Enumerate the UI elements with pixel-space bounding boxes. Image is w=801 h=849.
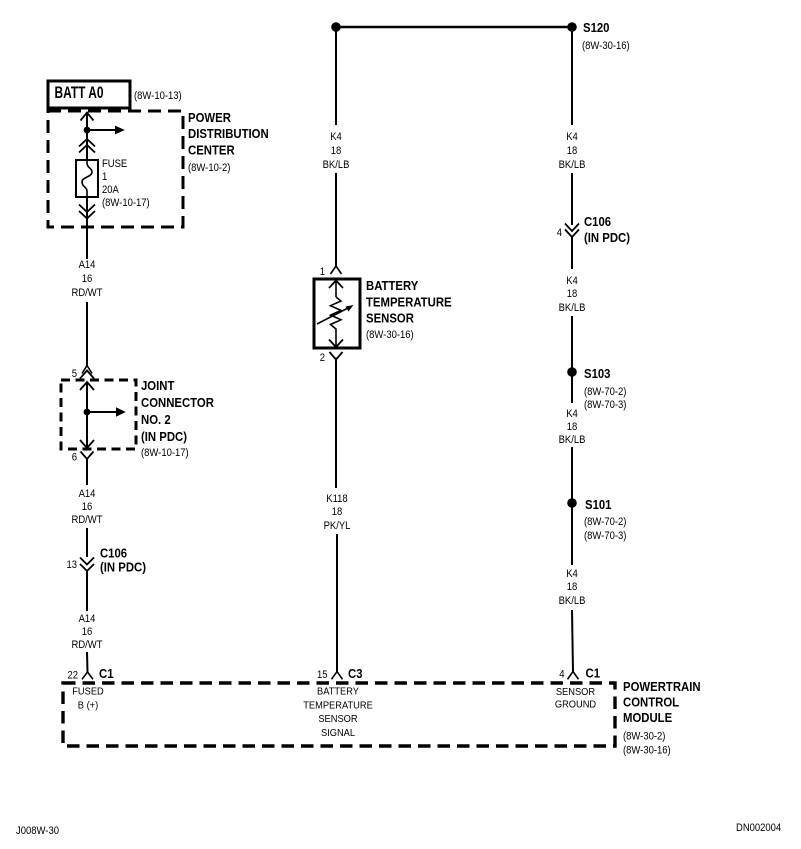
svg-text:GROUND: GROUND [555, 700, 596, 711]
wire down from C106 right [571, 237, 573, 269]
svg-text:CONTROL: CONTROL [623, 695, 679, 710]
connector C1 pin 22 fork [68, 666, 114, 682]
wire sensor feed top [335, 27, 337, 125]
svg-text:K118: K118 [326, 493, 347, 505]
svg-text:18: 18 [567, 421, 578, 433]
svg-text:RD/WT: RD/WT [72, 514, 103, 526]
svg-text:16: 16 [82, 273, 93, 285]
svg-text:18: 18 [567, 581, 578, 593]
svg-text:13: 13 [67, 559, 78, 571]
svg-text:BK/LB: BK/LB [323, 159, 350, 171]
svg-text:SENSOR: SENSOR [366, 311, 414, 326]
label BATTERY TEMPERATURE SENSOR SIGNAL [303, 687, 373, 740]
svg-text:RD/WT: RD/WT [72, 287, 103, 299]
label wire K4 18 BK/LB right fourth [559, 568, 586, 607]
svg-text:20A: 20A [102, 184, 119, 196]
svg-text:18: 18 [567, 145, 578, 157]
label wire K4 18 BK/LB middle [323, 131, 350, 171]
svg-text:SENSOR: SENSOR [318, 714, 357, 725]
svg-text:18: 18 [567, 288, 578, 300]
svg-text:DN002004: DN002004 [736, 822, 781, 834]
svg-text:15: 15 [317, 669, 328, 681]
svg-text:1: 1 [102, 171, 107, 183]
svg-text:C3: C3 [348, 666, 363, 681]
svg-text:BATTERY: BATTERY [366, 278, 418, 293]
label JOINT CONNECTOR NO. 2 (IN PDC) (8W-10-17) [141, 378, 214, 459]
svg-text:DISTRIBUTION: DISTRIBUTION [188, 126, 269, 141]
svg-text:SIGNAL: SIGNAL [321, 728, 356, 739]
svg-text:22: 22 [68, 670, 79, 682]
svg-text:K4: K4 [330, 131, 342, 143]
node S120 [567, 22, 577, 32]
wire down to C106 pin 4 [571, 173, 573, 225]
label J008W-30 [16, 825, 59, 837]
node splice in joint connector [84, 409, 91, 416]
svg-text:A14: A14 [79, 259, 96, 271]
connector pin 2 fork [320, 352, 343, 364]
svg-text:C106: C106 [100, 546, 127, 561]
label wire A14 16 RD/WT second [72, 488, 103, 526]
wire branch to other circuits from joint connector [87, 407, 126, 416]
label FUSE 1 20A (8W-10-17) [102, 158, 150, 209]
node splice above battery temperature sensor [331, 22, 341, 32]
svg-text:C1: C1 [99, 666, 114, 681]
wire down to joint connector [86, 302, 88, 366]
svg-text:MODULE: MODULE [623, 710, 672, 725]
svg-text:RD/WT: RD/WT [72, 639, 103, 651]
svg-text:(IN PDC): (IN PDC) [584, 230, 630, 245]
svg-text:B (+): B (+) [78, 701, 98, 712]
connector arrow to BATT A0 [81, 113, 94, 121]
label POWER DISTRIBUTION CENTER [188, 110, 269, 174]
svg-text:2: 2 [320, 352, 325, 364]
connector arrow joint connector output [80, 440, 94, 448]
wire down to S101 [571, 447, 573, 565]
svg-text:BK/LB: BK/LB [559, 595, 586, 607]
fuse F1 20A [76, 160, 98, 197]
svg-text:K4: K4 [566, 131, 578, 143]
svg-text:(IN PDC): (IN PDC) [100, 560, 146, 575]
power distribution center box [48, 111, 183, 227]
svg-text:FUSED: FUSED [72, 687, 104, 698]
wire fuse output down [86, 197, 88, 259]
svg-text:18: 18 [332, 506, 343, 518]
label FUSED B (+) [72, 687, 104, 712]
wire down to S103 [571, 316, 573, 403]
thermistor symbol [317, 281, 354, 348]
svg-text:4: 4 [559, 669, 564, 681]
wire down from pin 6 [86, 459, 88, 485]
svg-text:1: 1 [320, 266, 325, 278]
connector pin 6 chevron [72, 452, 94, 464]
svg-text:(8W-10-17): (8W-10-17) [102, 197, 150, 209]
svg-text:(8W-10-17): (8W-10-17) [141, 447, 189, 459]
svg-text:JOINT: JOINT [141, 378, 174, 393]
label S101 (8W-70-2) (8W-70-3) [584, 497, 627, 542]
svg-text:5: 5 [72, 368, 77, 380]
label POWERTRAIN CONTROL MODULE [623, 679, 701, 757]
wire battery feed in PDC [86, 113, 88, 161]
connector BATT A0 [48, 81, 130, 108]
svg-text:S103: S103 [584, 366, 611, 381]
wire down to sensor pin 1 [335, 173, 337, 267]
connector arrow joint connector input [80, 382, 94, 390]
svg-text:(8W-10-13): (8W-10-13) [134, 90, 182, 102]
svg-text:16: 16 [82, 626, 93, 638]
label wire K4 18 BK/LB right top [559, 131, 586, 171]
svg-text:S120: S120 [583, 20, 610, 35]
svg-text:BK/LB: BK/LB [559, 434, 586, 446]
svg-text:POWER: POWER [188, 110, 231, 125]
svg-text:A14: A14 [79, 488, 96, 500]
svg-text:SENSOR: SENSOR [556, 687, 595, 698]
node splice in PDC [84, 127, 91, 134]
svg-text:BATTERY: BATTERY [317, 687, 359, 698]
svg-text:(8W-30-16): (8W-30-16) [623, 745, 671, 757]
svg-text:J008W-30: J008W-30 [16, 825, 59, 837]
node S103 [567, 367, 577, 377]
svg-text:C1: C1 [586, 666, 601, 681]
svg-text:POWERTRAIN: POWERTRAIN [623, 679, 701, 694]
svg-text:CENTER: CENTER [188, 143, 235, 158]
svg-text:BK/LB: BK/LB [559, 302, 586, 314]
svg-text:NO. 2: NO. 2 [141, 412, 171, 427]
wire down to PCM pin 15 [336, 534, 338, 672]
wire down from C106 [86, 571, 88, 611]
wire down to C106 [86, 528, 88, 557]
wire top bus from splice to S120 [336, 26, 572, 29]
connector chevrons fuse input [79, 139, 95, 153]
wire inside joint connector [86, 382, 88, 447]
wire sensor signal down [335, 360, 337, 488]
powertrain control module box [63, 683, 615, 746]
label wire K4 18 BK/LB right third [559, 408, 586, 446]
svg-text:FUSE: FUSE [102, 158, 128, 170]
label SENSOR GROUND [555, 687, 596, 711]
label BATTERY TEMPERATURE SENSOR (8W-30-16) [366, 278, 452, 341]
node S101 [567, 498, 577, 508]
label wire A14 16 RD/WT [72, 259, 103, 299]
svg-text:(8W-70-3): (8W-70-3) [584, 530, 627, 542]
svg-text:C106: C106 [584, 214, 611, 229]
svg-text:S101: S101 [585, 497, 612, 512]
svg-text:(8W-30-16): (8W-30-16) [582, 40, 630, 52]
label C106 (IN PDC) left [100, 546, 146, 575]
svg-text:TEMPERATURE: TEMPERATURE [303, 701, 373, 712]
connector pin 1 fork [320, 266, 342, 278]
svg-text:CONNECTOR: CONNECTOR [141, 395, 214, 410]
svg-text:6: 6 [72, 452, 77, 464]
connector C3 pin 15 fork [317, 666, 363, 681]
label C106 (IN PDC) right [584, 214, 630, 245]
connector C106 pin 4 chevrons [557, 224, 579, 240]
svg-text:(8W-70-2): (8W-70-2) [584, 516, 627, 528]
svg-text:18: 18 [331, 145, 342, 157]
svg-text:A14: A14 [79, 613, 96, 625]
svg-text:BK/LB: BK/LB [559, 159, 586, 171]
svg-text:(IN PDC): (IN PDC) [141, 429, 187, 444]
wire down to PCM pin 4 [572, 610, 573, 672]
svg-text:16: 16 [82, 501, 93, 513]
svg-text:BATT A0: BATT A0 [55, 84, 104, 102]
label S103 (8W-70-2) (8W-70-3) [584, 366, 627, 411]
label DN002004 [736, 822, 781, 834]
battery temperature sensor box [314, 279, 360, 348]
svg-text:(8W-30-16): (8W-30-16) [366, 329, 414, 341]
label (8W-10-13) [134, 90, 182, 102]
wire down to PCM pin 22 [86, 652, 89, 673]
joint connector no 2 box [61, 380, 136, 449]
wire S120 down [571, 27, 573, 125]
svg-text:PK/YL: PK/YL [324, 520, 351, 532]
connector C1 pin 4 fork [559, 666, 600, 681]
label wire K4 18 BK/LB right second [559, 275, 586, 314]
svg-text:K4: K4 [566, 275, 578, 287]
label wire K118 18 PK/YL [324, 493, 351, 532]
connector C106 pin 13 chevrons [67, 558, 95, 572]
label wire A14 16 RD/WT third [72, 613, 103, 651]
wire branch to other circuits [87, 126, 125, 135]
svg-text:4: 4 [557, 227, 562, 239]
connector pin 5 fork and chevron [72, 366, 94, 381]
svg-text:K4: K4 [566, 408, 578, 420]
svg-text:K4: K4 [566, 568, 578, 580]
svg-text:(8W-10-2): (8W-10-2) [188, 162, 231, 174]
svg-text:(8W-30-2): (8W-30-2) [623, 731, 666, 743]
svg-text:(8W-70-2): (8W-70-2) [584, 386, 627, 398]
connector chevrons fuse output [79, 205, 95, 219]
svg-text:TEMPERATURE: TEMPERATURE [366, 295, 452, 310]
label S120 [582, 20, 630, 52]
svg-text:(8W-70-3): (8W-70-3) [584, 399, 627, 411]
